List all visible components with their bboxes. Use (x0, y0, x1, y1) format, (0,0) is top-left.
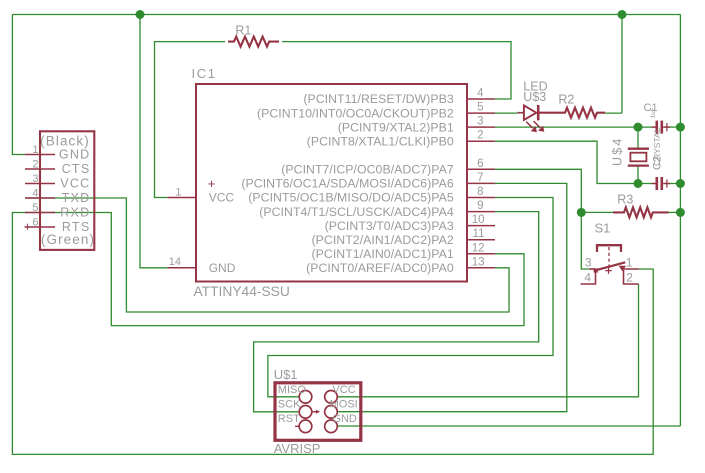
svg-text:1: 1 (175, 187, 181, 199)
svg-text:2: 2 (32, 159, 38, 171)
svg-text:ATTINY44-SSU: ATTINY44-SSU (194, 284, 290, 299)
node junction dot XTAL1/C2 (634, 179, 643, 188)
svg-text:4: 4 (477, 88, 484, 100)
wire MISO: IC pin8 to ISP MISO (268, 198, 553, 397)
node junction dot C2/GND rail (676, 179, 685, 188)
wire SCK: IC pin9 to ISP SCK (254, 212, 539, 412)
svg-text:(PCINT7/ICP/OC0B/ADC7)PA7: (PCINT7/ICP/OC0B/ADC7)PA7 (281, 163, 454, 177)
svg-text:11: 11 (473, 228, 485, 240)
node junction dot top left-of-R1 (136, 10, 145, 19)
svg-text:(PCINT2/AIN1/ADC2)PA2: (PCINT2/AIN1/ADC2)PA2 (312, 233, 454, 247)
wire IC pin6 to R3/S1 node (495, 169, 590, 269)
svg-text:2: 2 (626, 271, 633, 285)
svg-text:(PCINT3/T0/ADC3)PA3: (PCINT3/T0/ADC3)PA3 (325, 219, 454, 233)
wire GND top rail (12, 14, 680, 16)
wire RX: IC pin13 to connector TXD (25, 198, 509, 312)
crystal U$4 (628, 149, 649, 166)
svg-text:(PCINT0/AREF/ADC0)PA0: (PCINT0/AREF/ADC0)PA0 (306, 261, 454, 275)
svg-text:5: 5 (477, 102, 483, 114)
wire GND right rail (679, 15, 681, 427)
capacitor C1 (652, 121, 671, 134)
node junction dot C1/GND rail (676, 123, 685, 132)
ISP U$1 pin pads (299, 391, 337, 433)
resistor R1 (228, 37, 279, 47)
wire GND to ISP GND pin (337, 425, 680, 427)
svg-text:10: 10 (472, 214, 485, 226)
svg-text:GND: GND (209, 261, 236, 275)
svg-text:U$4: U$4 (611, 136, 625, 166)
svg-text:8: 8 (477, 186, 483, 198)
connector pin stubs 1-6 (25, 155, 55, 228)
LED U$3 emission arrows (526, 121, 544, 132)
node junction dot top LED branch (618, 10, 627, 19)
svg-text:SCK: SCK (278, 399, 301, 411)
svg-text:GND: GND (59, 148, 91, 162)
svg-text:R1: R1 (235, 24, 251, 38)
node junction dot R3/GND rail (676, 208, 685, 217)
svg-text:(PCINT11/RESET/DW)PB3: (PCINT11/RESET/DW)PB3 (303, 92, 454, 106)
svg-text:VCC: VCC (332, 384, 355, 396)
svg-text:(PCINT10/INT0/OC0A/CKOUT)PB2: (PCINT10/INT0/OC0A/CKOUT)PB2 (257, 106, 454, 120)
text connector pin names (59, 148, 91, 235)
svg-text:RTS: RTS (62, 220, 91, 234)
wire R3 right to GND rail (669, 211, 681, 213)
ISP U$1 pin stubs (295, 412, 317, 427)
resistor R2 (539, 108, 605, 118)
svg-text:3: 3 (585, 256, 592, 270)
svg-text:RXD: RXD (60, 206, 90, 220)
LED U$3 (518, 105, 539, 120)
text connector pin numbers (32, 144, 38, 229)
svg-text:+: + (24, 220, 31, 234)
node junction dot R3/S1/pin6 (577, 208, 586, 217)
node junction dot XTAL2/C1 (634, 123, 643, 132)
wire RESET: R1 right to IC pin4 (282, 42, 511, 99)
connector X (FTDI) body (40, 131, 94, 250)
wire R2 right to GND drop (605, 112, 622, 114)
svg-text:1uF: 1uF (650, 107, 657, 118)
wire TX: IC pin12 to connector RXD (25, 213, 524, 326)
svg-text:IC1: IC1 (192, 66, 217, 81)
wire crystal bottom lead (637, 166, 639, 183)
svg-text:(PCINT6/OC1A/SDA/MOSI/ADC6)PA6: (PCINT6/OC1A/SDA/MOSI/ADC6)PA6 (241, 177, 454, 191)
text S1 pin numbers (584, 256, 633, 285)
svg-text:(PCINT8/XTAL1/CLKI)PB0: (PCINT8/XTAL1/CLKI)PB0 (307, 134, 454, 148)
svg-text:3: 3 (32, 173, 38, 185)
wire XTAL1: IC pin2 to C2 left node (495, 141, 652, 183)
wire S1 pin2 to ISP VCC (337, 284, 638, 397)
svg-text:1: 1 (32, 144, 38, 156)
text ISP pin names (278, 384, 358, 425)
wire GND left drop to connector pin1 (12, 15, 25, 155)
wire C2 right to GND rail (669, 183, 681, 185)
svg-text:(PCINT1/AIN0/ADC1)PA1: (PCINT1/AIN0/ADC1)PA1 (312, 247, 454, 261)
svg-text:RST: RST (278, 413, 300, 425)
svg-text:5: 5 (32, 202, 38, 214)
svg-text:2: 2 (477, 130, 483, 142)
resistor R3 (613, 207, 669, 217)
svg-text:1: 1 (626, 256, 633, 270)
switch S1 (581, 245, 639, 284)
wire R3 left lead to node (581, 211, 613, 213)
svg-text:VCC: VCC (209, 191, 235, 205)
svg-text:4: 4 (32, 188, 38, 200)
svg-text:(Black): (Black) (40, 133, 90, 148)
svg-text:6: 6 (477, 158, 483, 170)
svg-text:U$1: U$1 (274, 367, 298, 382)
svg-text:GND: GND (332, 413, 357, 425)
wire MOSI: IC pin7 to ISP MOSI (337, 183, 566, 411)
svg-text:14: 14 (169, 256, 181, 268)
wire crystal top lead (637, 127, 639, 148)
text IC right pin names (241, 92, 454, 275)
IC1 right pin stubs (467, 99, 495, 268)
svg-text:6: 6 (32, 217, 38, 229)
svg-text:MISO: MISO (278, 384, 307, 396)
svg-text:AVRISP: AVRISP (274, 441, 321, 456)
svg-text:(PCINT9/XTAL2)PB1: (PCINT9/XTAL2)PB1 (338, 120, 454, 134)
wire connector RXD to bottom rail to S1 pin1 (12, 213, 653, 455)
svg-text:12: 12 (472, 242, 485, 254)
svg-text:(PCINT5/OC1B/MISO/DO/ADC5)PA5: (PCINT5/OC1B/MISO/DO/ADC5)PA5 (248, 191, 454, 205)
svg-text:13: 13 (472, 256, 485, 268)
wire GND drop to IC pin14 (140, 15, 167, 268)
capacitor C2 (652, 177, 671, 190)
IC1 left pin stubs (167, 198, 196, 268)
text IC left pin numbers (169, 187, 182, 268)
svg-text:CRYSTAL: CRYSTAL (652, 127, 662, 166)
svg-text:TXD: TXD (62, 191, 91, 205)
svg-text:R2: R2 (558, 93, 574, 107)
wire IC pin5 to LED anode (495, 112, 518, 114)
svg-text:4: 4 (584, 271, 591, 285)
svg-text:9: 9 (477, 200, 483, 212)
svg-text:VCC: VCC (60, 177, 90, 191)
svg-text:CTS: CTS (62, 162, 91, 176)
text IC right pin numbers (472, 88, 485, 269)
svg-text:+: + (208, 176, 216, 191)
wire XTAL2: IC pin3 to C1 left node (495, 126, 652, 128)
wire C1 right to GND rail (669, 126, 681, 128)
wire VCC: R1 left to IC pin1 (155, 42, 226, 198)
svg-text:7: 7 (477, 172, 483, 184)
svg-text:MOSI: MOSI (330, 399, 358, 411)
wire GND drop to R2 right (621, 15, 623, 114)
svg-text:3: 3 (477, 116, 483, 128)
svg-text:U$3: U$3 (523, 90, 546, 104)
svg-text:R3: R3 (617, 193, 633, 207)
op IC1 body (196, 84, 467, 282)
svg-text:(PCINT4/T1/SCL/USCK/ADC4)PA4: (PCINT4/T1/SCL/USCK/ADC4)PA4 (259, 205, 454, 219)
ISP header U$1 body (275, 383, 361, 441)
svg-text:S1: S1 (595, 221, 611, 236)
